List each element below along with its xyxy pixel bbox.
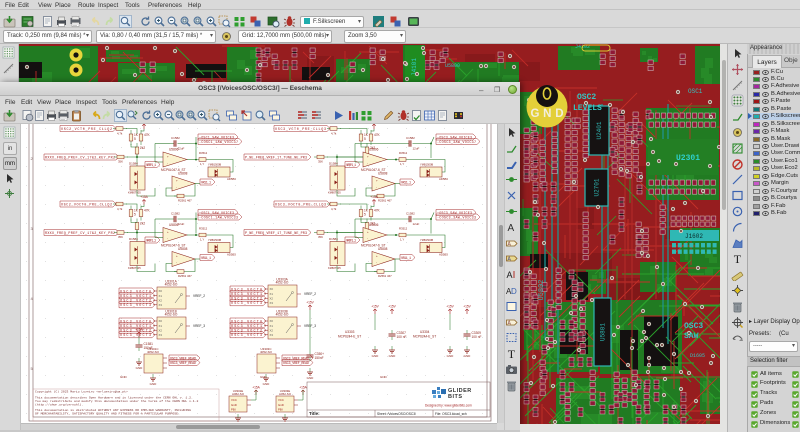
svg-text:YMB1500B: YMB1500B: [208, 238, 221, 242]
svg-text:150nF: 150nF: [315, 356, 324, 360]
svg-text:1,Y: 1,Y: [400, 238, 404, 242]
svg-text:A: A: [508, 223, 515, 234]
svg-text:+: +: [367, 230, 369, 234]
svg-text:VREF_3: VREF_3: [193, 324, 205, 328]
svg-text:U5806: U5806: [369, 148, 379, 152]
svg-text:U3304: U3304: [420, 330, 430, 334]
svg-text:VCC: VCC: [278, 398, 284, 402]
svg-text:+: +: [167, 230, 169, 234]
svg-text:U5808: U5808: [378, 247, 388, 251]
svg-text:R3512: R3512: [199, 151, 208, 155]
svg-text:OSC3_VREF_READ: OSC3_VREF_READ: [283, 362, 309, 366]
svg-text:4,7k: 4,7k: [331, 207, 337, 211]
svg-text:D1584: D1584: [329, 162, 338, 166]
svg-text:OSC1: OSC1: [688, 88, 703, 95]
svg-text:4,7k: 4,7k: [117, 132, 123, 136]
svg-text:+: +: [376, 179, 378, 183]
svg-text:2k2: 2k2: [140, 222, 145, 226]
svg-text:-COSC1_1AW_VOIC33: -COSC1_1AW_VOIC33: [199, 216, 238, 220]
svg-text:+: +: [176, 254, 178, 258]
svg-text:X0: X0: [270, 287, 274, 291]
svg-text:X0: X0: [270, 319, 274, 323]
svg-text:-: -: [376, 185, 377, 189]
svg-text:GND: GND: [447, 354, 455, 358]
svg-text:X3: X3: [270, 301, 274, 305]
svg-text:U5802: U5802: [538, 279, 546, 300]
svg-text:AD5B3: AD5B3: [439, 177, 448, 181]
svg-text:-: -: [367, 161, 368, 165]
svg-text:U5800: U5800: [445, 63, 460, 69]
svg-text:12uF: 12uF: [413, 222, 420, 226]
svg-text:VREF_2: VREF_2: [193, 294, 205, 298]
svg-text:OSC3_VOCT3: OSC3_VOCT3: [120, 304, 151, 308]
svg-text:4052-SO: 4052-SO: [276, 313, 289, 317]
svg-text:X0: X0: [159, 319, 163, 323]
svg-text:R2561 467: R2561 467: [378, 274, 392, 278]
svg-text:C1582: C1582: [406, 212, 415, 216]
svg-text:T: T: [734, 252, 742, 265]
svg-text:5: 5: [134, 213, 136, 217]
svg-text:+15A: +15A: [299, 386, 307, 390]
svg-text:X2: X2: [270, 296, 274, 300]
svg-text:GND: GND: [307, 376, 315, 380]
svg-text:-: -: [367, 237, 368, 241]
svg-text:-: -: [167, 161, 168, 165]
svg-text:47K: 47K: [374, 133, 381, 137]
svg-text:(http://ohwr.org/cernohl).: (http://ohwr.org/cernohl).: [35, 403, 83, 407]
svg-text:4052-SO: 4052-SO: [260, 350, 273, 354]
svg-text:YMB1500B: YMB1500B: [420, 163, 433, 167]
svg-text:U5808: U5808: [178, 172, 188, 176]
svg-text:12uF: 12uF: [178, 222, 185, 226]
svg-text:VREF1_1: VREF1_1: [146, 239, 156, 243]
svg-text:4052-SO: 4052-SO: [165, 313, 178, 317]
svg-text:R2561 467: R2561 467: [178, 199, 192, 203]
svg-text:D1584: D1584: [329, 237, 338, 241]
svg-text:OSC3_VOCT3: OSC3_VOCT3: [231, 334, 262, 338]
svg-text:100 nF: 100 nF: [472, 335, 482, 339]
svg-text:47K: 47K: [374, 209, 381, 213]
svg-text:U2701: U2701: [594, 178, 601, 196]
svg-text:-COSC3_3AW_VOIC33: -COSC3_3AW_VOIC33: [437, 216, 476, 220]
svg-text:R3512: R3512: [399, 151, 408, 155]
svg-text:4,7k: 4,7k: [331, 132, 337, 136]
svg-text:X2: X2: [159, 298, 163, 302]
svg-text:U5808: U5808: [378, 172, 388, 176]
svg-text:Designed by: www.gliderbits.co: Designed by: www.gliderbits.com: [425, 404, 472, 408]
svg-text:+15A: +15A: [252, 386, 260, 390]
svg-text:C1582: C1582: [406, 136, 415, 140]
svg-text:4052-SO: 4052-SO: [147, 350, 160, 354]
svg-text:P_NE_FREQ_VREF_17_TUNE_NE_PR3: P_NE_FREQ_VREF_17_TUNE_NE_PR3: [245, 156, 307, 160]
svg-text:VREF_2: VREF_2: [304, 292, 316, 296]
svg-text:MCP6244-E_ST: MCP6244-E_ST: [413, 335, 436, 339]
svg-text:+: +: [367, 155, 369, 159]
svg-text:+15V: +15V: [388, 305, 396, 309]
svg-text:GnD: GnD: [231, 403, 237, 407]
svg-text:R2561 467: R2561 467: [178, 274, 192, 278]
svg-text:KM80T605: KM80T605: [328, 191, 341, 195]
svg-text:+: +: [167, 155, 169, 159]
svg-text:C1582: C1582: [171, 212, 180, 216]
svg-text:GND: GND: [260, 375, 268, 379]
svg-text:YMB1500B: YMB1500B: [208, 163, 221, 167]
svg-text:1,Y: 1,Y: [200, 162, 204, 166]
svg-text:J1602: J1602: [685, 233, 703, 240]
svg-text:+: +: [176, 179, 178, 183]
svg-text:35K: 35K: [318, 160, 323, 164]
svg-text:-: -: [376, 261, 377, 265]
svg-text:U5801: U5801: [600, 323, 607, 341]
svg-text:A052-SO: A052-SO: [279, 392, 292, 396]
svg-text:OSC3_VOCT3: OSC3_VOCT3: [120, 334, 151, 338]
svg-text:KM80T605: KM80T605: [328, 266, 341, 270]
svg-text:LEVELS: LEVELS: [573, 104, 602, 113]
svg-text:C1582: C1582: [171, 136, 180, 140]
svg-text:VCC: VCC: [231, 398, 237, 402]
svg-text:GND: GND: [389, 354, 397, 358]
svg-text:GND: GND: [531, 108, 564, 120]
svg-text:GND: GND: [150, 382, 158, 386]
svg-text:D1605: D1605: [690, 353, 705, 359]
svg-text:T: T: [508, 347, 516, 360]
svg-text:OSC3_VOCT0_PRE_CLLQ3: OSC3_VOCT0_PRE_CLLQ3: [275, 203, 326, 207]
svg-text:X3: X3: [159, 303, 163, 307]
svg-text:+: +: [376, 254, 378, 258]
svg-text:+15V: +15V: [446, 305, 454, 309]
svg-text:OSC2: OSC2: [577, 93, 596, 102]
svg-text:VR11_1: VR11_1: [201, 257, 211, 261]
svg-text:GND: GND: [380, 375, 388, 379]
svg-text:PBI: PBI: [231, 408, 236, 412]
svg-text:X2: X2: [159, 328, 163, 332]
svg-text:GND: GND: [372, 354, 380, 358]
svg-text:R3512: R3512: [199, 227, 208, 231]
svg-text:GND: GND: [263, 382, 271, 386]
svg-text:+15A: +15A: [140, 195, 148, 199]
svg-text:KM80T605: KM80T605: [128, 191, 141, 195]
svg-text:AD5B3: AD5B3: [227, 177, 236, 181]
svg-text:OSC3_VCT0_PRE_CLLQ3: OSC3_VCT0_PRE_CLLQ3: [275, 128, 326, 132]
svg-text:VREF1_1: VREF1_1: [346, 164, 356, 168]
svg-text:X1: X1: [159, 324, 163, 328]
svg-text:A052-SO: A052-SO: [232, 392, 245, 396]
svg-text:Sheet: /VoicesOSC/OSC3/: Sheet: /VoicesOSC/OSC3/: [377, 412, 416, 416]
svg-text:VREF1_1: VREF1_1: [146, 164, 156, 168]
svg-text:X1: X1: [270, 324, 274, 328]
svg-text:VREF1_1: VREF1_1: [346, 239, 356, 243]
svg-text:+15A: +15A: [135, 328, 143, 332]
svg-text:X1: X1: [270, 292, 274, 296]
svg-text:5: 5: [134, 137, 136, 141]
svg-text:U2401: U2401: [596, 121, 603, 139]
svg-text:GnD: GnD: [278, 403, 284, 407]
svg-text:R3512: R3512: [399, 227, 408, 231]
svg-text:+15V: +15V: [463, 305, 471, 309]
svg-text:35K: 35K: [318, 235, 323, 239]
svg-text:-: -: [167, 237, 168, 241]
svg-text:47K: 47K: [144, 133, 151, 137]
svg-text:X3: X3: [159, 333, 163, 337]
svg-text:1,Y: 1,Y: [400, 162, 404, 166]
svg-text:U5808: U5808: [178, 247, 188, 251]
svg-text:35K: 35K: [118, 160, 123, 164]
svg-text:D1584: D1584: [129, 162, 138, 166]
svg-text:+15V: +15V: [306, 301, 314, 305]
svg-text:OSC3: OSC3: [684, 322, 703, 331]
svg-text:U3303: U3303: [345, 330, 355, 334]
svg-text:P_NE_FREQ_VREF_17_TUNE_NE_PR3: P_NE_FREQ_VREF_17_TUNE_NE_PR3: [245, 232, 307, 236]
svg-text:OSC2_VOCT0_PRE_CLLQ2: OSC2_VOCT0_PRE_CLLQ2: [61, 203, 112, 207]
svg-text:+15A: +15A: [370, 195, 378, 199]
svg-text:VR11_1: VR11_1: [401, 181, 411, 185]
svg-text:File: OSC3.kicad_sch: File: OSC3.kicad_sch: [435, 412, 467, 416]
svg-text:5: 5: [364, 137, 366, 141]
svg-text:35K: 35K: [118, 235, 123, 239]
svg-text:MCP6244-E_ST: MCP6244-E_ST: [338, 335, 361, 339]
svg-text:YMB1500B: YMB1500B: [420, 238, 433, 242]
svg-text:X2: X2: [270, 328, 274, 332]
svg-text:-: -: [176, 261, 177, 265]
svg-text:150nF: 150nF: [144, 346, 153, 350]
svg-text:1,Y: 1,Y: [200, 238, 204, 242]
svg-text:X3: X3: [270, 333, 274, 337]
svg-text:KM80T605: KM80T605: [128, 266, 141, 270]
svg-text:4052-SO: 4052-SO: [165, 283, 178, 287]
svg-text:PBI: PBI: [278, 408, 283, 412]
svg-text:RXXX_FREQ_PREF_CV_17&2_KEY_PR2: RXXX_FREQ_PREF_CV_17&2_KEY_PR2: [45, 232, 115, 236]
svg-text:12uF: 12uF: [413, 147, 420, 151]
svg-text:D1584: D1584: [129, 237, 138, 241]
svg-text:GND: GND: [120, 375, 128, 379]
svg-text:-COSC3_3AW_VOIC37: -COSC3_3AW_VOIC37: [437, 141, 476, 145]
svg-text:VR11_1: VR11_1: [201, 181, 211, 185]
svg-text:100 nF: 100 nF: [397, 335, 407, 339]
svg-text:AD5B3: AD5B3: [227, 253, 236, 257]
svg-text:Title:: Title:: [309, 411, 320, 416]
svg-text:VR11_1: VR11_1: [401, 257, 411, 261]
svg-text:OSC3_VOCT3: OSC3_VOCT3: [231, 302, 262, 306]
svg-text:-: -: [176, 185, 177, 189]
svg-text:SAW: SAW: [684, 332, 699, 341]
svg-text:OSC3_VREF_READ: OSC3_VREF_READ: [170, 362, 196, 366]
svg-text:D: D: [511, 287, 517, 296]
svg-text:-COSC1_1AW_VOIC37: -COSC1_1AW_VOIC37: [199, 141, 238, 145]
svg-text:OF MERCHANTABILITY, SATISFACTO: OF MERCHANTABILITY, SATISFACTORY QUALITY…: [35, 412, 180, 416]
svg-text:OSC2_VCT0_PRE_CLLQ2: OSC2_VCT0_PRE_CLLQ2: [61, 128, 112, 132]
svg-text:BITS: BITS: [448, 394, 463, 400]
svg-text:+15V: +15V: [371, 305, 379, 309]
svg-text:4052-SO: 4052-SO: [276, 281, 289, 285]
svg-text:2k2: 2k2: [140, 146, 145, 150]
svg-text:X0: X0: [159, 289, 163, 293]
svg-text:GND: GND: [464, 354, 472, 358]
svg-text:X1: X1: [159, 294, 163, 298]
svg-text:A: A: [507, 270, 513, 280]
svg-text:Copyright (C) 2023 Mario Luzei: Copyright (C) 2023 Mario Luzeiro <mrluze…: [35, 390, 128, 394]
svg-text:R2561 467: R2561 467: [378, 199, 392, 203]
svg-text:AD5B3: AD5B3: [439, 253, 448, 257]
svg-text:U2301: U2301: [676, 154, 700, 163]
svg-text:4,7k: 4,7k: [117, 207, 123, 211]
svg-text:12uF: 12uF: [178, 147, 185, 151]
svg-text:RXXX_FREQ_PREF_CV_17&2_KEY_PR2: RXXX_FREQ_PREF_CV_17&2_KEY_PR2: [45, 156, 115, 160]
svg-text:5: 5: [364, 213, 366, 217]
svg-text:GND: GND: [136, 366, 144, 370]
svg-text:U5806: U5806: [369, 223, 379, 227]
svg-text:47K: 47K: [144, 209, 151, 213]
